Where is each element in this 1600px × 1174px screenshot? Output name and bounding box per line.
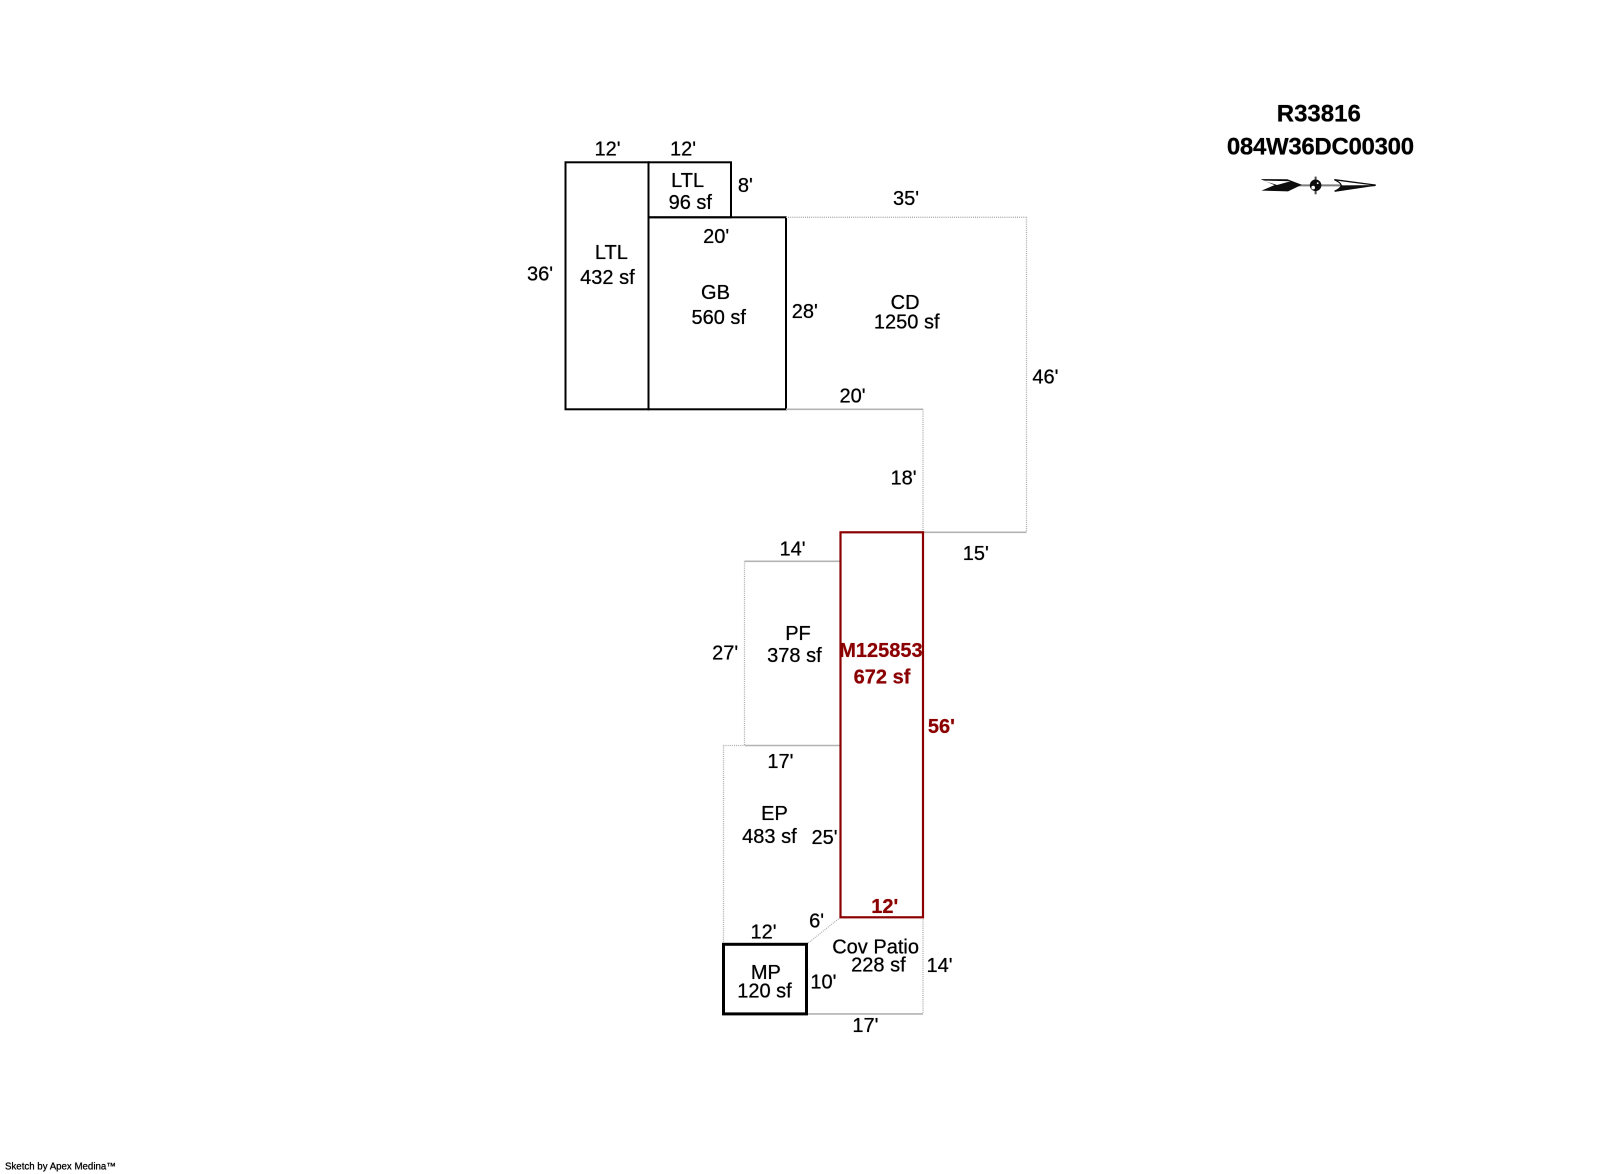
svg-text:20': 20' <box>703 226 729 248</box>
svg-text:8': 8' <box>738 175 753 197</box>
svg-text:12': 12' <box>670 139 696 161</box>
svg-text:R33816: R33816 <box>1277 101 1361 128</box>
svg-text:12': 12' <box>751 921 777 943</box>
svg-text:560 sf: 560 sf <box>691 307 746 329</box>
svg-text:15': 15' <box>963 543 989 565</box>
svg-text:084W36DC00300: 084W36DC00300 <box>1227 134 1414 161</box>
area PF bottom edge solid 17ft <box>745 745 841 747</box>
compass tail white wedge <box>1263 181 1290 185</box>
svg-text:120 sf: 120 sf <box>737 980 792 1002</box>
svg-text:483 sf: 483 sf <box>742 826 797 848</box>
svg-text:35': 35' <box>893 188 919 210</box>
area CD lower-left edge solid 20ft <box>786 408 923 410</box>
svg-text:PF: PF <box>785 623 811 645</box>
svg-text:17': 17' <box>852 1015 878 1037</box>
area EP left edge dotted <box>723 746 725 945</box>
svg-text:378 sf: 378 sf <box>767 645 822 667</box>
area CD inner edge dotted 18ft <box>922 409 924 532</box>
area CD top edge dotted 35ft <box>786 216 1027 218</box>
compass tail fletching <box>1261 179 1302 191</box>
svg-text:GB: GB <box>701 282 730 304</box>
area LTL 96 sf outline <box>649 162 732 217</box>
svg-text:46': 46' <box>1032 366 1058 388</box>
svg-text:36': 36' <box>527 263 553 285</box>
svg-text:432 sf: 432 sf <box>580 267 635 289</box>
svg-text:20': 20' <box>840 386 866 408</box>
area Cov Patio bottom edge solid 17ft <box>807 1013 924 1015</box>
svg-text:672 sf: 672 sf <box>854 667 911 689</box>
area MP 120 sf outline <box>724 944 807 1014</box>
svg-text:56': 56' <box>928 716 955 738</box>
area CD bottom edge solid 15ft <box>923 531 1027 533</box>
compass head lower wedge <box>1335 185 1375 191</box>
svg-text:Sketch by Apex Medina™: Sketch by Apex Medina™ <box>5 1162 116 1173</box>
svg-text:1250 sf: 1250 sf <box>874 312 940 334</box>
svg-text:10': 10' <box>810 972 836 994</box>
compass hub disc <box>1310 180 1322 192</box>
svg-text:LTL: LTL <box>671 170 704 192</box>
area EP top-left edge dotted <box>724 745 745 747</box>
svg-text:17': 17' <box>767 751 793 773</box>
svg-text:27': 27' <box>712 643 738 665</box>
svg-text:18': 18' <box>891 467 917 489</box>
svg-text:14': 14' <box>927 955 953 977</box>
svg-text:EP: EP <box>761 803 788 825</box>
area EP diagonal edge dotted 6ft <box>807 917 841 944</box>
compass hub white notch <box>1311 186 1315 190</box>
svg-text:12': 12' <box>594 139 620 161</box>
area PF left edge dotted 27ft <box>744 561 746 745</box>
area PF top edge solid 14ft <box>745 560 841 562</box>
compass hub white glint <box>1317 182 1319 184</box>
area M125853 672 sf outline (subject) <box>841 532 924 917</box>
compass head outline <box>1334 180 1376 192</box>
svg-text:LTL: LTL <box>595 242 628 264</box>
svg-text:28': 28' <box>792 301 818 323</box>
svg-text:M125853: M125853 <box>839 640 922 662</box>
svg-text:25': 25' <box>812 827 838 849</box>
area CD right edge dotted 46ft <box>1026 217 1028 532</box>
area Cov Patio right edge dotted 14ft <box>922 917 924 1014</box>
compass shaft <box>1298 184 1375 186</box>
svg-text:96 sf: 96 sf <box>669 192 713 214</box>
area LTL 432 sf outline <box>566 162 649 409</box>
svg-text:14': 14' <box>779 539 805 561</box>
svg-text:12': 12' <box>871 896 898 918</box>
compass hub crosshair tick <box>1315 177 1317 195</box>
area GB 560 sf outline <box>649 217 787 409</box>
svg-text:228 sf: 228 sf <box>851 955 906 977</box>
svg-text:6': 6' <box>809 911 824 933</box>
